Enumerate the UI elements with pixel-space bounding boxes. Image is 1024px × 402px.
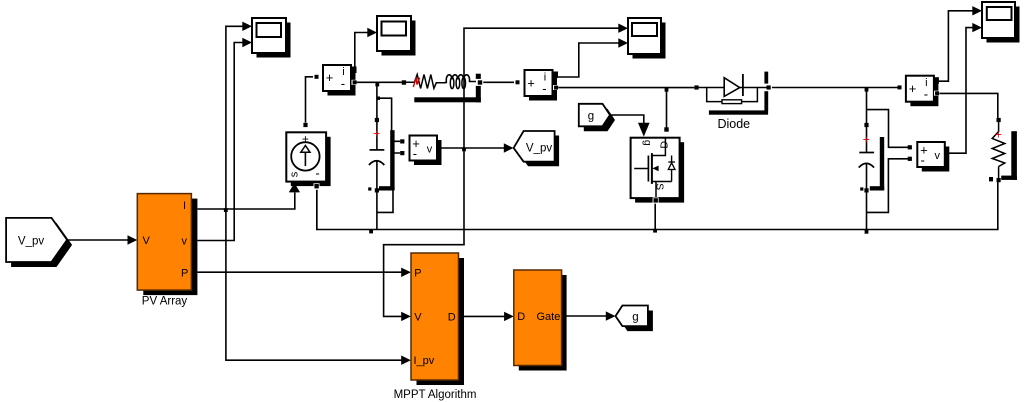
current measurement I2 [516,70,559,101]
svg-text:PV Array: PV Array [142,296,188,308]
wire: C1 top lead from main wire [376,82,378,118]
svg-text:Diode: Diode [717,117,750,131]
svg-text:g: g [632,311,638,323]
svg-text:-: - [924,87,928,102]
wire: MOSFET source to rail [654,203,656,230]
voltage measurement V2 (load voltage) [908,142,950,172]
wire: I tap up to Scope1 input 1 [226,26,244,209]
svg-text:+: + [373,127,380,141]
node: junction MOSFET drain tap [665,88,669,92]
current measurement I3 [898,76,940,107]
svg-text:P: P [414,267,421,279]
wire: current source - output to rail (already in rail polyline, stub) [316,186,318,230]
node: junction rail/C2 [865,230,869,234]
svg-text:V: V [414,311,422,323]
scope Scope2 (top-middle) [377,16,416,56]
wire: V2 - port down to C2 bottom [867,159,908,213]
wire: bottom rail [317,182,998,230]
MOSFET Q1 [631,127,685,203]
svg-text:I_pv: I_pv [414,355,435,367]
wire: C2 bottom lead to rail [866,192,868,230]
svg-text:-: - [341,76,345,91]
wire: V2 output to Scope4 input 2 [945,28,974,154]
voltage measurement V1 (V_pv) [400,136,441,166]
svg-text:-: - [413,146,417,161]
svg-text:v: v [427,143,433,155]
svg-text:v: v [182,236,188,248]
svg-text:g: g [588,110,594,122]
node: junction cap C1 top [375,83,379,87]
wire: I tap down to MPPT I_pv input [226,209,402,360]
wire: g from-tag to MOSFET gate [610,115,644,129]
resistor load branch R1 [989,118,1017,182]
goto tag V_pv [514,131,560,166]
from tag V_pv (bottom-left) [6,218,72,267]
wire: MPPT D output to Gate block [459,315,506,317]
wire: drain tap down to MOSFET D port [666,88,668,128]
current measurement I1 [315,65,357,96]
svg-text:V_pv: V_pv [526,142,552,154]
diode D1 [694,72,772,131]
wire: V1 output to V_pv goto tag [437,147,505,149]
capacitor C2 (output cap branch) [859,123,885,193]
svg-text:D: D [517,311,525,323]
wire: PV P output to MPPT P input [198,271,402,273]
Gate pulse block [514,270,567,371]
wire: PV I output to current source s input [198,193,295,210]
wire: V1 - port down to C1 bottom [377,153,400,212]
wire: C2 top lead from main wire [866,88,868,124]
wire: RL branch to I2 measurement input [482,81,514,83]
svg-text:-: - [315,166,319,181]
svg-text:I: I [183,200,186,212]
svg-text:V: V [143,235,151,247]
scope Scope3 (middle) [628,18,666,59]
capacitor C1 (input cap branch) [368,118,394,193]
node: junction cap C2 top [865,88,869,92]
from tag g (gate signal) [579,104,615,132]
wire: I1 - output to series RL branch (main top wire) [357,81,402,83]
wire: Diode to I3 measurement + input [771,87,898,89]
scope Scope1 (top-left) [252,18,291,58]
wire: V net up to Scope3 input 1 [464,28,619,148]
svg-text:v: v [935,150,941,162]
wire: current source + to I1 measurement + input [306,77,314,123]
node: junction I-wire/scope1 [224,208,228,212]
svg-text:D: D [659,141,671,149]
goto tag g (bottom) [616,306,653,332]
svg-text:-: - [921,152,925,167]
wire: I2 - output to Diode [558,87,694,89]
node: junction V net [462,148,466,152]
svg-text:+: + [995,128,1002,142]
svg-text:MPPT Algorithm: MPPT Algorithm [394,389,477,401]
wire: I1 i output up to Scope2 [355,33,369,71]
svg-text:S: S [653,183,665,190]
node: junction rail/MOSFET source [653,229,657,233]
node: junction rail/C1 [369,230,373,234]
wire: V_pv from-tag to PV Array V input [67,239,129,241]
svg-text:D: D [448,311,456,323]
controlled current source U1 [286,123,330,192]
wire: I2 i output up to Scope3 input 2 [557,43,619,77]
series RLC branch (R-L) [402,74,484,103]
PV Array block [137,194,197,308]
wire: C1 top tap to V1 + port [377,98,400,141]
wire: C1 bottom lead to rail [376,192,378,230]
svg-text:-: - [542,81,546,96]
wire: I3 - output to load branch top [940,93,998,118]
wire: V net down to MPPT V input [384,148,464,316]
wire: Gate block output to g goto tag [562,315,607,317]
node: junction C1/V1 tap [377,97,380,100]
wire: C2 top tap to V2 + port [867,110,909,148]
wire: PV v output up to Scope1 input 2 [198,43,244,241]
svg-text:Gate: Gate [537,311,561,323]
svg-text:+: + [326,70,334,85]
svg-text:P: P [181,268,188,280]
svg-text:g: g [642,140,654,146]
svg-text:+: + [909,81,917,96]
MPPT Algorithm block [394,253,477,401]
svg-text:V_pv: V_pv [18,235,44,247]
svg-text:+: + [863,133,870,147]
svg-text:+: + [527,76,535,91]
scope Scope4 (top-right) [982,2,1020,43]
wire: I3 i output to Scope4 input 1 [938,11,973,81]
svg-text:s: s [289,171,301,177]
